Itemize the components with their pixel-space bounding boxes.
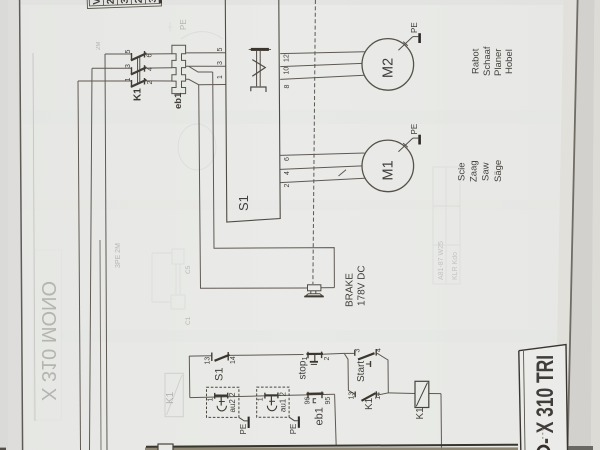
svg-text:au1 2: au1 2 <box>278 392 287 413</box>
svg-text:Schaaf: Schaaf <box>482 46 493 76</box>
svg-text:M2: M2 <box>381 58 397 78</box>
svg-text:BRAKE: BRAKE <box>345 273 356 307</box>
svg-text:178V DC: 178V DC <box>357 265 368 306</box>
svg-text:K1: K1 <box>415 407 426 420</box>
svg-text:96: 96 <box>305 397 312 405</box>
svg-text:4: 4 <box>376 348 383 352</box>
svg-text:C5: C5 <box>185 265 192 274</box>
svg-text:2: 2 <box>284 184 291 188</box>
svg-text:12: 12 <box>284 54 291 62</box>
svg-text:A81-87 W25: A81-87 W25 <box>438 241 445 280</box>
svg-text:2M: 2M <box>96 42 102 50</box>
svg-text:3PE 2M: 3PE 2M <box>115 243 122 268</box>
svg-text:14: 14 <box>230 356 237 364</box>
svg-text:PE: PE <box>410 124 419 135</box>
svg-text:5: 5 <box>217 48 224 52</box>
svg-text:Saw: Saw <box>481 162 492 181</box>
svg-text:13: 13 <box>349 392 356 400</box>
svg-text:PE: PE <box>239 424 248 435</box>
svg-text:eb1: eb1 <box>173 92 184 109</box>
svg-text:M1: M1 <box>381 160 397 180</box>
svg-text:8: 8 <box>284 85 291 89</box>
svg-text:Zaag: Zaag <box>469 160 480 182</box>
svg-text:K1: K1 <box>133 88 144 101</box>
svg-text:au2 2: au2 2 <box>228 392 237 413</box>
svg-text:10: 10 <box>284 67 291 75</box>
svg-text:3: 3 <box>120 0 131 4</box>
svg-text:1: 1 <box>217 75 224 79</box>
svg-text:V: V <box>92 0 103 5</box>
svg-text:Scie: Scie <box>457 163 468 181</box>
svg-text:3: 3 <box>125 64 132 68</box>
svg-text:6: 6 <box>147 54 154 58</box>
svg-text:5: 5 <box>125 50 132 54</box>
svg-text:1: 1 <box>208 398 215 402</box>
svg-text:3: 3 <box>355 349 362 353</box>
svg-text:95: 95 <box>325 397 332 405</box>
svg-text:2: 2 <box>324 357 331 361</box>
svg-text:3: 3 <box>148 0 159 3</box>
svg-text:stop: stop <box>298 360 309 379</box>
svg-text:PE: PE <box>179 19 188 30</box>
svg-text:- X 310 TRI: - X 310 TRI <box>532 355 558 444</box>
svg-text:13: 13 <box>205 357 212 365</box>
svg-text:X 310 MONO: X 310 MONO <box>37 281 59 401</box>
svg-text:14: 14 <box>375 392 382 400</box>
svg-text:Säge: Säge <box>493 160 504 182</box>
svg-text:4: 4 <box>147 67 154 71</box>
svg-text:S1: S1 <box>214 368 226 381</box>
svg-text:PE: PE <box>289 424 298 435</box>
svg-text:eb1: eb1 <box>314 407 326 425</box>
svg-text:S1: S1 <box>236 195 251 211</box>
svg-text:PE: PE <box>410 22 419 33</box>
svg-text:1: 1 <box>125 78 132 82</box>
svg-text:K1: K1 <box>364 397 375 410</box>
svg-text:K1: K1 <box>165 391 176 404</box>
svg-text:1: 1 <box>258 397 265 401</box>
svg-text:Planer: Planer <box>493 49 504 76</box>
svg-text:3: 3 <box>217 61 224 65</box>
svg-text:KLR Kdo: KLR Kdo <box>452 252 459 280</box>
svg-text:2: 2 <box>147 81 154 85</box>
svg-text:C1: C1 <box>185 316 192 325</box>
svg-text:4: 4 <box>284 171 291 175</box>
svg-text:Start: Start <box>356 361 367 382</box>
svg-text:6: 6 <box>284 157 291 161</box>
svg-text:2: 2 <box>134 0 145 3</box>
svg-text:Hobel: Hobel <box>504 49 515 74</box>
svg-text:2: 2 <box>106 0 117 4</box>
svg-text:Rabot: Rabot <box>471 48 482 74</box>
svg-text:1: 1 <box>302 357 309 361</box>
